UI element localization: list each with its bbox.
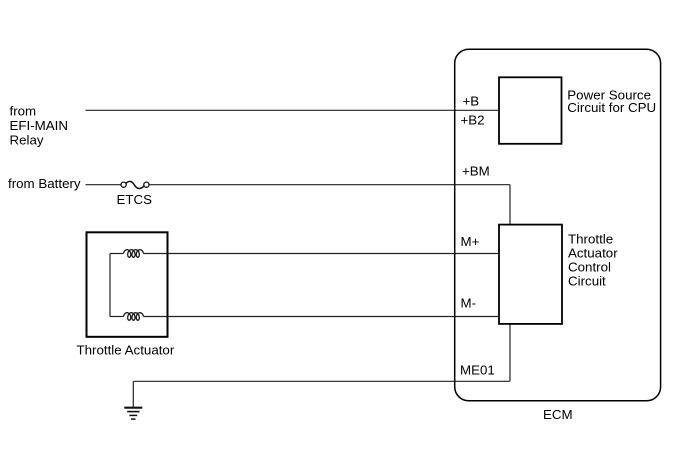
- svg-text:Relay: Relay: [10, 132, 44, 147]
- svg-text:Circuit: Circuit: [568, 273, 606, 288]
- svg-text:M+: M+: [461, 234, 480, 249]
- svg-text:Control: Control: [568, 259, 611, 274]
- svg-text:+BM: +BM: [462, 163, 490, 178]
- svg-text:+B: +B: [463, 93, 480, 108]
- svg-text:Actuator: Actuator: [568, 245, 618, 260]
- svg-text:Throttle Actuator: Throttle Actuator: [77, 342, 175, 357]
- svg-text:Throttle: Throttle: [568, 231, 613, 246]
- svg-text:+B2: +B2: [461, 112, 485, 127]
- svg-text:ECM: ECM: [543, 407, 573, 422]
- svg-text:ETCS: ETCS: [117, 192, 153, 207]
- svg-text:Circuit for CPU: Circuit for CPU: [567, 100, 656, 115]
- svg-text:from Battery: from Battery: [8, 176, 81, 191]
- svg-text:EFI-MAIN: EFI-MAIN: [10, 118, 69, 133]
- svg-text:from: from: [10, 103, 37, 118]
- svg-text:M-: M-: [461, 296, 477, 311]
- svg-text:ME01: ME01: [460, 363, 495, 378]
